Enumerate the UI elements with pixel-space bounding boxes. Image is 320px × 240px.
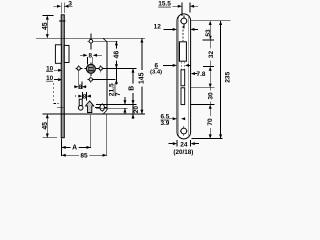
svg-text:24: 24 <box>180 142 188 149</box>
svg-text:10: 10 <box>46 75 54 82</box>
svg-text:8: 8 <box>78 84 82 91</box>
svg-text:145: 145 <box>138 72 145 84</box>
svg-text:85: 85 <box>80 153 88 160</box>
svg-text:(20/18): (20/18) <box>173 149 193 156</box>
svg-text:7: 7 <box>115 92 122 96</box>
svg-text:B: B <box>129 86 136 91</box>
svg-text:A: A <box>72 145 77 152</box>
svg-text:20: 20 <box>133 106 140 114</box>
svg-text:45: 45 <box>42 22 49 30</box>
svg-text:53: 53 <box>205 29 212 37</box>
svg-text:3.9: 3.9 <box>160 120 169 127</box>
svg-text:32: 32 <box>208 51 215 59</box>
svg-text:15.5: 15.5 <box>158 1 171 8</box>
svg-text:45: 45 <box>42 122 49 130</box>
svg-text:30: 30 <box>207 92 214 100</box>
svg-text:12: 12 <box>154 24 162 31</box>
svg-text:6: 6 <box>155 62 159 69</box>
svg-text:10: 10 <box>46 65 54 72</box>
svg-text:70: 70 <box>207 118 214 126</box>
svg-text:8: 8 <box>83 93 87 100</box>
svg-text:7.8: 7.8 <box>197 71 206 78</box>
svg-text:(3.4): (3.4) <box>150 69 162 75</box>
svg-text:8: 8 <box>88 52 92 59</box>
svg-text:46: 46 <box>114 51 121 59</box>
svg-text:235: 235 <box>224 71 231 82</box>
svg-text:3: 3 <box>68 1 72 8</box>
